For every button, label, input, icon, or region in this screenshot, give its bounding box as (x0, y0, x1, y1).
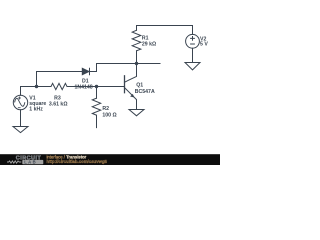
label R2 designator and value (102, 106, 116, 118)
label Q1 designator and value (135, 83, 155, 95)
wire collector rail (97, 63, 161, 65)
label V2 designator and value (200, 36, 208, 47)
node junction R1/collector (135, 62, 138, 65)
resistor R3 (51, 83, 67, 89)
wire diode anode drop (36, 72, 38, 87)
label R1 designator and value (142, 36, 156, 48)
resistor R1 (132, 26, 141, 64)
svg-text:R3: R3 (54, 95, 61, 101)
watermark text (47, 155, 108, 165)
svg-text:Q1: Q1 (136, 83, 143, 89)
svg-text:http://circuitlab.com/csuvwg5: http://circuitlab.com/csuvwg5 (47, 159, 108, 164)
resistor R2 (92, 87, 100, 128)
voltage source V2 (186, 26, 200, 63)
wire base net (21, 86, 125, 88)
wire top rail V+ (137, 25, 193, 27)
svg-text:100 Ω: 100 Ω (102, 112, 116, 118)
wire diode cathode riser (90, 64, 97, 72)
node junction V1/diode (35, 85, 38, 88)
svg-text:1 kHz: 1 kHz (29, 107, 43, 113)
ground (V1) (13, 127, 28, 133)
transistor Q1 (125, 64, 137, 110)
ground (Q1 emitter) (129, 110, 144, 116)
svg-text:BC547A: BC547A (135, 89, 155, 95)
ground (V2) (185, 63, 200, 70)
node junction R2/base (95, 85, 98, 88)
svg-text:1N4148: 1N4148 (75, 84, 93, 90)
diode D1 (37, 68, 90, 74)
svg-text:LAB: LAB (24, 160, 37, 165)
svg-text:29 kΩ: 29 kΩ (142, 41, 156, 47)
label D1 designator and value (75, 78, 93, 90)
CircuitLab logo (7, 156, 43, 165)
voltage source V1 (13, 87, 27, 127)
svg-text:5 V: 5 V (200, 42, 208, 48)
svg-text:R2: R2 (102, 106, 109, 112)
label R3 designator and value (49, 95, 68, 107)
label V1 designator and value (29, 96, 46, 113)
watermark bar (0, 154, 220, 165)
svg-text:3.61 kΩ: 3.61 kΩ (49, 101, 68, 107)
svg-text:D1: D1 (82, 78, 89, 84)
